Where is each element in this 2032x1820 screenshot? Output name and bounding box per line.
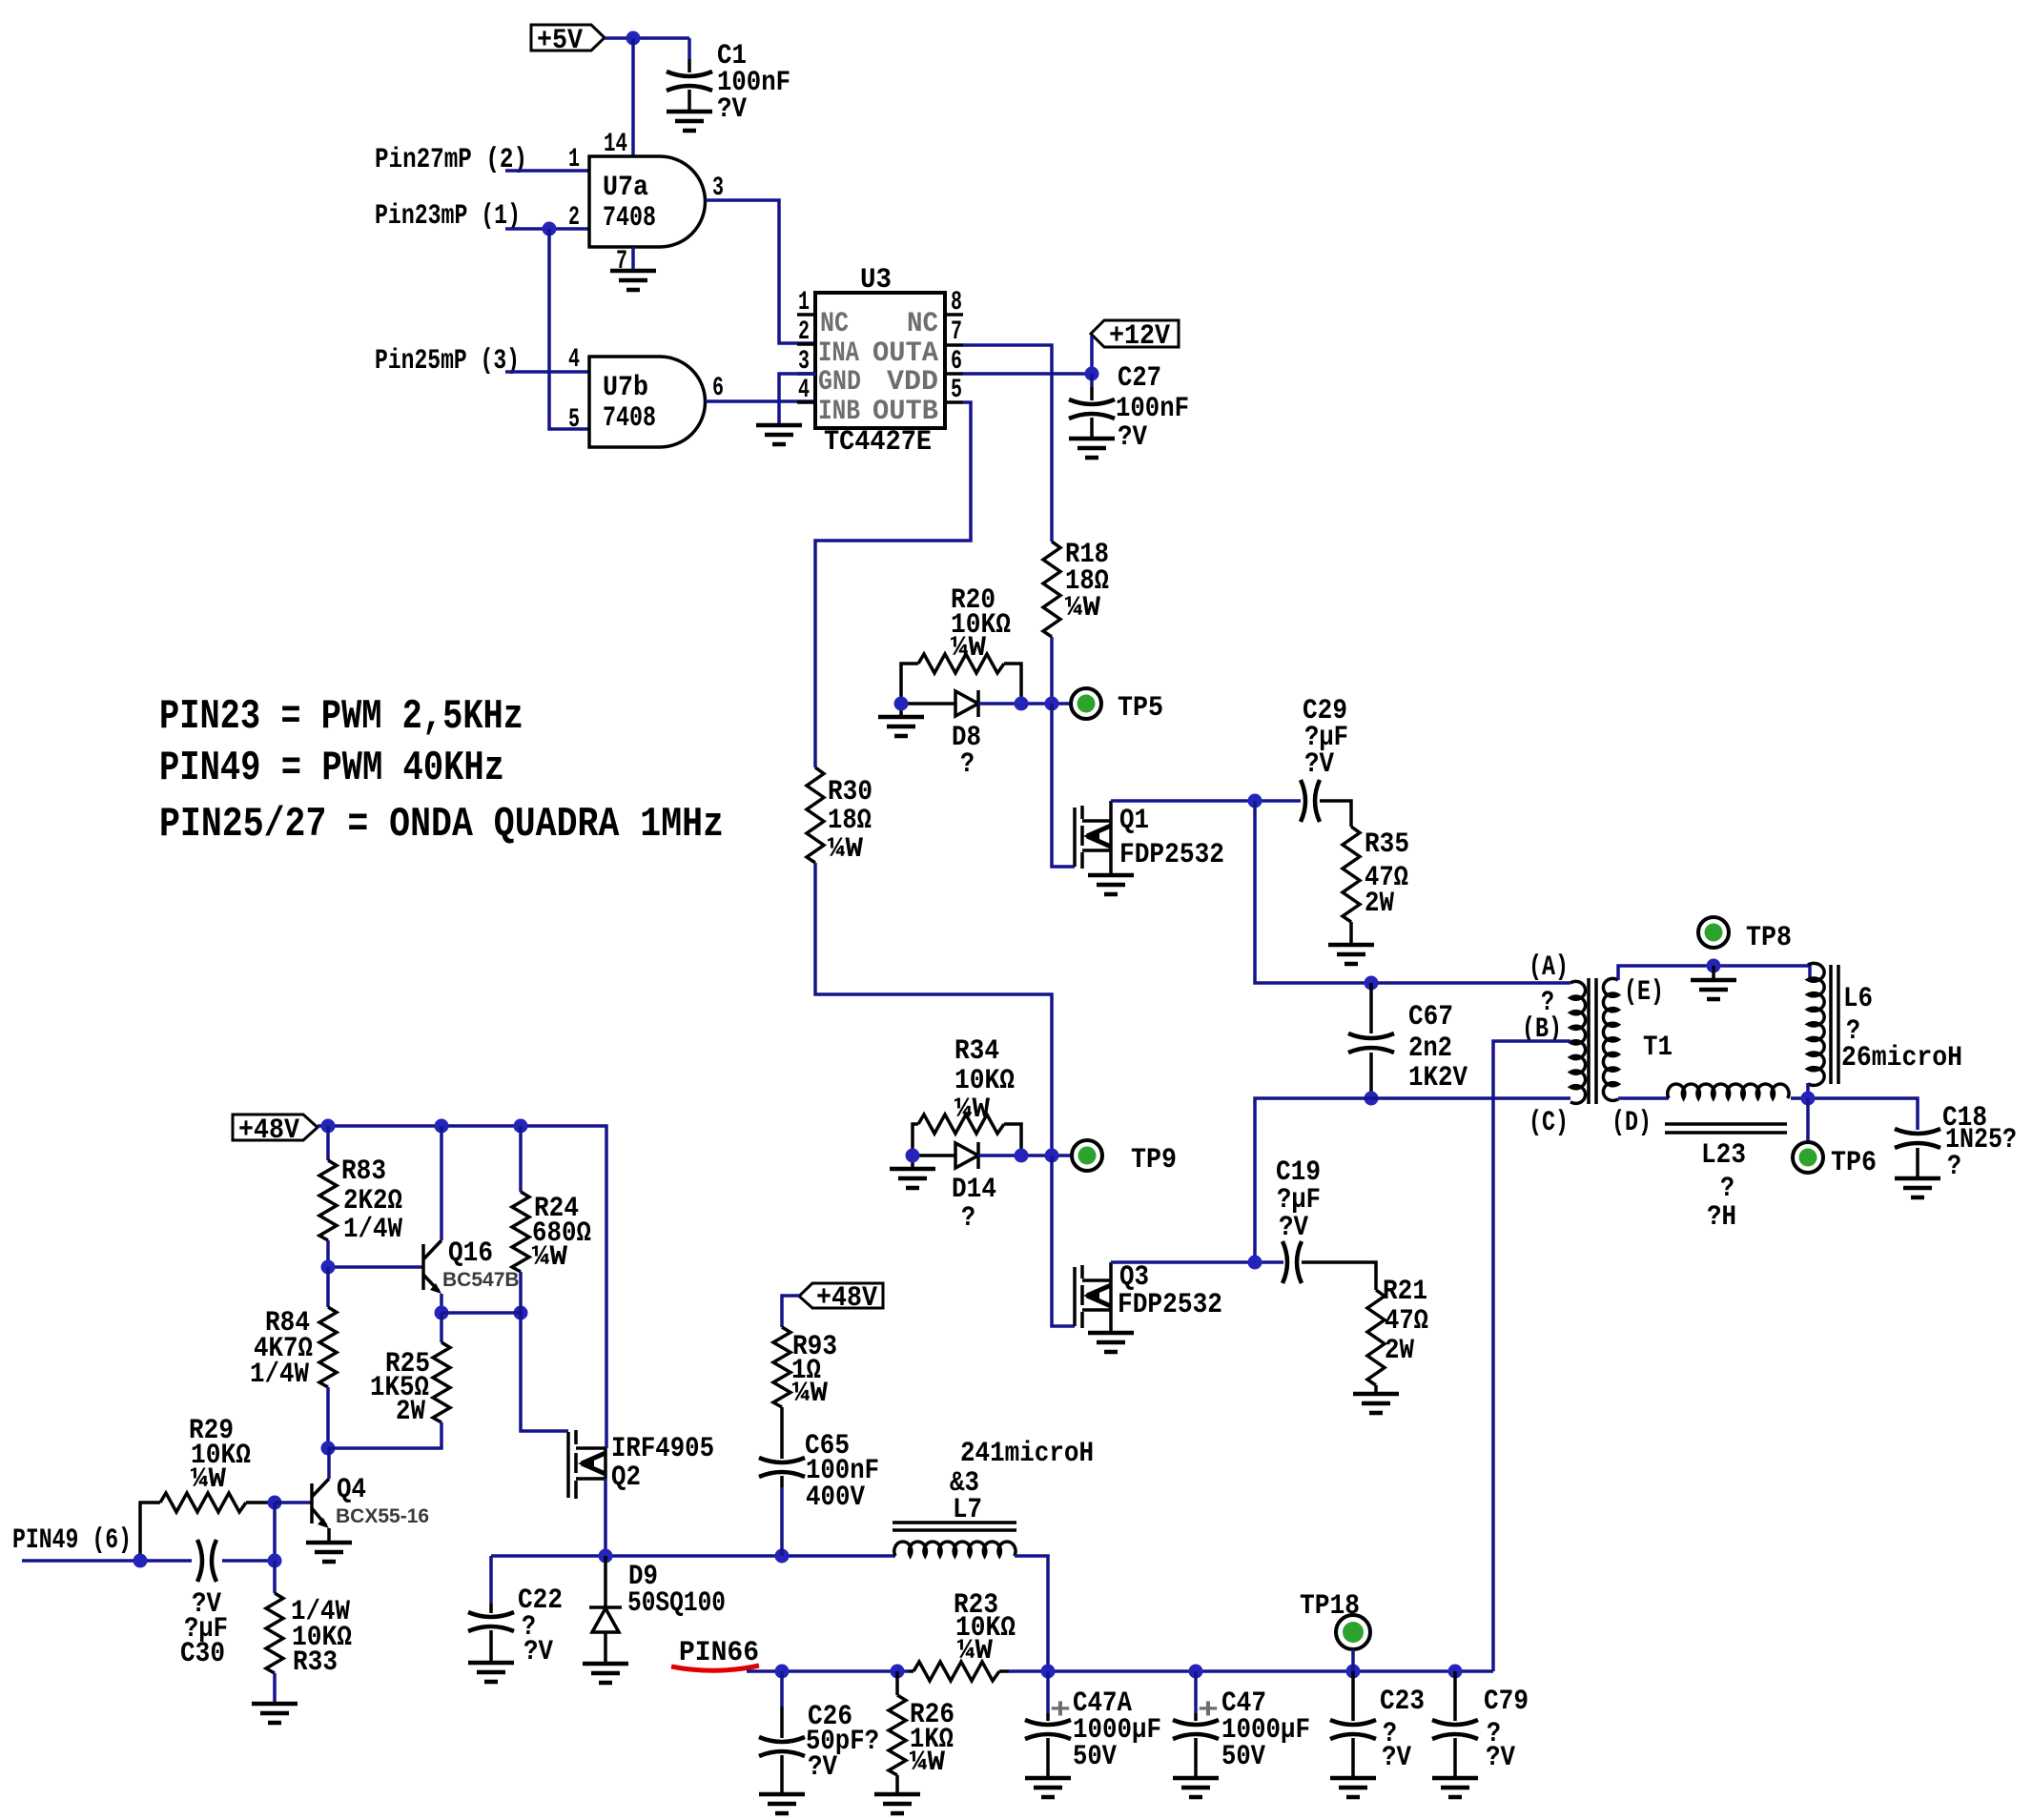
svg-text:50SQ100: 50SQ100 bbox=[627, 1587, 726, 1620]
resistor R29 10K bbox=[140, 1415, 275, 1561]
wire junction to Q2 gate bbox=[521, 1313, 568, 1431]
svg-text:INB: INB bbox=[818, 396, 860, 428]
wire Q2 source down to rail bbox=[604, 1479, 607, 1556]
test point TP18 bbox=[1300, 1590, 1370, 1649]
svg-text:6: 6 bbox=[951, 347, 962, 377]
wire U3 VDD pin6 to +12V bbox=[963, 372, 1092, 376]
ground U3 pin3 bbox=[756, 425, 802, 444]
node junction TP8 bbox=[1707, 959, 1721, 973]
resistor R83 2K2 bbox=[319, 1126, 402, 1246]
svg-text:2: 2 bbox=[568, 203, 580, 233]
svg-text:TP5: TP5 bbox=[1118, 692, 1163, 725]
ground under C26 bbox=[759, 1794, 805, 1813]
svg-text:Q1: Q1 bbox=[1119, 805, 1149, 837]
svg-text:Q16: Q16 bbox=[448, 1237, 493, 1270]
svg-text:R34: R34 bbox=[954, 1035, 999, 1068]
svg-text:U7a: U7a bbox=[603, 172, 648, 204]
power flag +48V right bbox=[799, 1282, 883, 1315]
node junction PIN49/C30 bbox=[133, 1554, 148, 1568]
svg-text:L7: L7 bbox=[953, 1494, 982, 1526]
svg-text:47Ω: 47Ω bbox=[1385, 1305, 1428, 1338]
svg-text:2W: 2W bbox=[1365, 888, 1394, 920]
ground under C79 bbox=[1432, 1778, 1478, 1797]
transformer T1 bbox=[1522, 951, 1673, 1139]
wire transformer (B) tap down to output rail bbox=[1493, 1041, 1570, 1671]
svg-text:26microH: 26microH bbox=[1841, 1042, 1962, 1074]
wire T1 secondary (E) to TP8 and L6 bbox=[1618, 966, 1810, 980]
ground under C18 bbox=[1895, 1178, 1940, 1197]
node junction R24 top bbox=[514, 1119, 528, 1134]
IC U3 TC4427E bbox=[797, 264, 963, 459]
svg-text:10KΩ: 10KΩ bbox=[954, 1065, 1015, 1097]
ground D8 anode bbox=[878, 717, 924, 736]
text note block bbox=[159, 693, 724, 849]
transistor Q1 FDP2532 bbox=[1075, 801, 1224, 875]
wire Q16 collector up bbox=[440, 1126, 443, 1240]
svg-text:1/4W: 1/4W bbox=[343, 1214, 402, 1246]
wire L23 to C18 bbox=[1791, 1098, 1918, 1130]
svg-text:OUTA: OUTA bbox=[872, 337, 938, 370]
svg-text:R33: R33 bbox=[293, 1646, 338, 1679]
svg-text:R35: R35 bbox=[1365, 828, 1409, 861]
wire flag to R93 bbox=[782, 1296, 799, 1327]
svg-text:1: 1 bbox=[568, 145, 580, 174]
power flag +5V bbox=[531, 25, 605, 57]
wire +5V to C1 bbox=[605, 36, 689, 40]
svg-text:IRF4905: IRF4905 bbox=[611, 1433, 714, 1465]
resistor R93 1ohm bbox=[773, 1327, 837, 1410]
svg-text:¼W: ¼W bbox=[532, 1241, 567, 1274]
svg-text:1K2V: 1K2V bbox=[1408, 1062, 1468, 1094]
svg-text:L23: L23 bbox=[1701, 1139, 1746, 1172]
ground under C22 bbox=[468, 1663, 514, 1682]
ground Q4 emitter bbox=[306, 1543, 352, 1562]
node junction Q2/D9 bbox=[599, 1549, 613, 1564]
node junction VDD C27 bbox=[1085, 367, 1099, 381]
power flag +12V bbox=[1091, 320, 1179, 353]
svg-text:?: ? bbox=[960, 748, 975, 781]
capacitor C67 2n2 bbox=[1348, 983, 1468, 1098]
wire +48V rail to Q2 bbox=[318, 1126, 606, 1448]
svg-text:+48V: +48V bbox=[816, 1282, 877, 1315]
ground under R35 bbox=[1328, 945, 1374, 964]
node junction R24 bottom bbox=[514, 1306, 528, 1320]
resistor R21 47ohm 2W bbox=[1367, 1276, 1428, 1385]
ground under C47 bbox=[1173, 1778, 1219, 1797]
ground under C27 bbox=[1069, 439, 1115, 458]
node junction TP5 bbox=[1045, 697, 1059, 711]
ground under C23 bbox=[1330, 1778, 1376, 1797]
svg-text:?V: ?V bbox=[808, 1751, 837, 1784]
svg-text:8: 8 bbox=[951, 288, 962, 317]
node junction Q16 emitter bbox=[435, 1306, 449, 1320]
node junction R83/R84/base bbox=[321, 1260, 336, 1275]
svg-text:TC4427E: TC4427E bbox=[824, 426, 932, 459]
svg-text:¼W: ¼W bbox=[792, 1378, 828, 1410]
svg-text:TP8: TP8 bbox=[1746, 922, 1792, 954]
svg-text:T1: T1 bbox=[1643, 1032, 1673, 1064]
svg-text:PIN49 = PWM 40KHz: PIN49 = PWM 40KHz bbox=[159, 745, 504, 792]
node junction TP6 bbox=[1801, 1092, 1816, 1106]
wire U7b output pin6 to U3 INB bbox=[706, 399, 816, 403]
wire Q16 emitter down bbox=[440, 1294, 443, 1313]
svg-text:2: 2 bbox=[798, 317, 810, 347]
test point TP5 bbox=[1071, 688, 1101, 719]
svg-text:TP9: TP9 bbox=[1131, 1144, 1177, 1176]
inductor L6 bbox=[1808, 963, 1962, 1085]
svg-text:R83: R83 bbox=[341, 1155, 386, 1188]
node junction Q16 collector top bbox=[435, 1119, 449, 1134]
capacitor C29 bbox=[1301, 695, 1348, 822]
svg-text:C67: C67 bbox=[1408, 1001, 1453, 1033]
svg-text:PIN25/27 = ONDA QUADRA 1MHz: PIN25/27 = ONDA QUADRA 1MHz bbox=[159, 801, 724, 849]
svg-text:R21: R21 bbox=[1383, 1276, 1427, 1308]
wire Q1 drain to C29 bbox=[1111, 799, 1301, 803]
svg-text:4: 4 bbox=[568, 345, 580, 375]
svg-text:L6: L6 bbox=[1843, 983, 1873, 1015]
node junction TP9 left bbox=[1015, 1149, 1029, 1163]
svg-text:C79: C79 bbox=[1484, 1686, 1529, 1718]
ground Q3 source bbox=[1088, 1333, 1134, 1352]
capacitor C27 bbox=[1069, 362, 1189, 454]
capacitor C1 bbox=[667, 38, 790, 126]
wire pin 4 bbox=[505, 370, 589, 374]
svg-text:¼W: ¼W bbox=[910, 1747, 945, 1779]
node junction C47 bbox=[1189, 1665, 1203, 1679]
svg-text:+12V: +12V bbox=[1109, 320, 1170, 353]
svg-text:2W: 2W bbox=[396, 1396, 425, 1428]
wire U7a output pin3 to U3 INA bbox=[706, 200, 816, 343]
ground U7a pin7 bbox=[610, 271, 656, 290]
svg-text:PIN49 (6): PIN49 (6) bbox=[12, 1524, 132, 1557]
svg-text:C30: C30 bbox=[180, 1638, 225, 1670]
diode D14 bbox=[913, 1142, 996, 1235]
node junction D14/R34 bbox=[906, 1149, 920, 1163]
ground under C47A bbox=[1025, 1778, 1071, 1797]
node junction R29/Q4 base bbox=[268, 1496, 282, 1510]
svg-text:¼W: ¼W bbox=[957, 1635, 993, 1667]
node junction Q3 drain bbox=[1248, 1256, 1262, 1270]
svg-text:¼W: ¼W bbox=[191, 1463, 226, 1496]
svg-text:¼W: ¼W bbox=[828, 833, 863, 866]
svg-text:+5V: +5V bbox=[537, 25, 583, 57]
node junction C67 bottom bbox=[1365, 1092, 1379, 1106]
svg-text:2K2Ω: 2K2Ω bbox=[343, 1185, 402, 1217]
svg-text:400V: 400V bbox=[806, 1482, 865, 1514]
svg-text:1: 1 bbox=[798, 288, 810, 317]
svg-text:?: ? bbox=[1947, 1151, 1961, 1183]
svg-text:¼W: ¼W bbox=[951, 632, 986, 665]
wire source rail C22 to L7 bbox=[491, 1554, 895, 1558]
wire output rail left bbox=[747, 1669, 909, 1673]
node junction pin2 bbox=[543, 222, 557, 236]
capacitor C30 bbox=[180, 1540, 228, 1670]
node junction R23/L7/C47A bbox=[1041, 1665, 1056, 1679]
wire C30 to R33 junction bbox=[222, 1559, 275, 1563]
wire U3 OUTB pin5 to R30 bbox=[815, 402, 971, 767]
ground under TP8 node bbox=[1712, 966, 1715, 980]
svg-text:Pin27mP (2): Pin27mP (2) bbox=[375, 144, 527, 176]
svg-text:NC: NC bbox=[820, 308, 849, 340]
svg-text:(A): (A) bbox=[1529, 951, 1569, 984]
wire pin 1 bbox=[505, 169, 589, 173]
svg-text:50V: 50V bbox=[1073, 1741, 1117, 1773]
diode D8 bbox=[901, 690, 981, 781]
svg-text:1/4W: 1/4W bbox=[250, 1359, 309, 1391]
resistor R26 1K bbox=[889, 1671, 954, 1794]
capacitor C22 bbox=[468, 1556, 563, 1668]
wire +5V down to U7a pin14 bbox=[631, 38, 635, 156]
wire emitter junction to R24 junction bbox=[441, 1311, 521, 1315]
svg-text:Pin23mP (1): Pin23mP (1) bbox=[375, 200, 521, 233]
svg-text:¼W: ¼W bbox=[1065, 592, 1100, 624]
wire TP9 to Q3 gate bbox=[1052, 1155, 1075, 1326]
wire PIN49 input bbox=[22, 1559, 192, 1563]
wire junction to Q4 base bbox=[275, 1503, 312, 1561]
node junction C26 bbox=[775, 1665, 790, 1679]
svg-text:¼W: ¼W bbox=[954, 1094, 990, 1126]
svg-text:VDD: VDD bbox=[887, 366, 938, 399]
svg-text:U7b: U7b bbox=[603, 372, 648, 404]
svg-text:?: ? bbox=[961, 1202, 975, 1235]
wire R18 to TP5 node bbox=[1050, 637, 1054, 704]
svg-text:(D): (D) bbox=[1611, 1107, 1652, 1139]
svg-text:2W: 2W bbox=[1385, 1335, 1414, 1367]
wire D14 to TP9 bbox=[978, 1154, 1072, 1157]
wire Q4 emitter to ground bbox=[327, 1528, 331, 1543]
svg-text:?V: ?V bbox=[1304, 748, 1334, 781]
and-gate U7b 7408 bbox=[568, 345, 724, 447]
svg-text:50V: 50V bbox=[1221, 1741, 1265, 1773]
node junction D8/R20 bbox=[894, 697, 909, 711]
transistor Q16 BC547B bbox=[423, 1237, 520, 1294]
T1 secondary winding bbox=[1603, 978, 1618, 1100]
svg-text:5: 5 bbox=[951, 376, 962, 405]
svg-text:241microH: 241microH bbox=[960, 1438, 1094, 1470]
wire Q3 drain to C19 bbox=[1111, 1260, 1283, 1264]
wire T1 (D) to L23 bbox=[1618, 1096, 1669, 1100]
wire R84 bottom to junction bbox=[326, 1387, 330, 1448]
wire PIN66 red underline bbox=[671, 1666, 759, 1670]
svg-text:D14: D14 bbox=[952, 1174, 996, 1206]
wire U3 OUTA pin7 to R18 bbox=[963, 345, 1052, 542]
svg-text:Q2: Q2 bbox=[611, 1462, 641, 1494]
node junction R83 top bbox=[321, 1119, 336, 1134]
wire junction down to pin 5 bbox=[549, 229, 589, 429]
ground D14 anode bbox=[890, 1169, 935, 1188]
wire U3 GND pin3 to ground bbox=[779, 374, 816, 425]
capacitor C18 bbox=[1895, 1102, 2017, 1183]
svg-text:6: 6 bbox=[712, 374, 724, 403]
wire TP18 to rail bbox=[1351, 1649, 1355, 1671]
svg-text:(E): (E) bbox=[1624, 976, 1664, 1009]
svg-text:PIN23 = PWM 2,5KHz: PIN23 = PWM 2,5KHz bbox=[159, 693, 523, 741]
resistor R84 4K7 bbox=[250, 1267, 337, 1391]
node junction R26/R23 bbox=[891, 1665, 905, 1679]
ground under R26 bbox=[874, 1794, 920, 1813]
svg-text:7408: 7408 bbox=[603, 402, 656, 435]
svg-text:Pin25mP (3): Pin25mP (3) bbox=[375, 345, 520, 378]
node junction +5V bbox=[626, 31, 641, 46]
ground Q1 source bbox=[1088, 875, 1134, 894]
wire L6 bottom to junction bbox=[1806, 1083, 1810, 1098]
ground under D9 bbox=[583, 1664, 628, 1683]
svg-text:?V: ?V bbox=[523, 1636, 553, 1668]
svg-text:100nF: 100nF bbox=[1116, 393, 1189, 425]
ground under R33 bbox=[252, 1704, 298, 1723]
wire D8 to TP5 bbox=[978, 702, 1070, 706]
resistor R35 47ohm 2W bbox=[1343, 827, 1409, 922]
wire C67 rail to transformer (C) and down to Q3 bbox=[1255, 1098, 1570, 1262]
test point TP6 bbox=[1793, 1142, 1823, 1173]
ground under R21 bbox=[1353, 1394, 1399, 1413]
svg-text:C27: C27 bbox=[1118, 362, 1161, 395]
svg-text:FDP2532: FDP2532 bbox=[1118, 1289, 1222, 1321]
svg-text:7: 7 bbox=[951, 317, 962, 347]
node junction Q1 drain bbox=[1248, 794, 1262, 808]
capacitor C19 bbox=[1276, 1156, 1321, 1283]
svg-text:5: 5 bbox=[568, 405, 580, 435]
svg-text:?: ? bbox=[1720, 1173, 1734, 1205]
svg-text:BC547B: BC547B bbox=[442, 1269, 520, 1291]
power flag +48V left bbox=[233, 1114, 318, 1147]
test point TP8 bbox=[1698, 917, 1729, 948]
svg-text:FDP2532: FDP2532 bbox=[1119, 839, 1224, 871]
svg-text:PIN66: PIN66 bbox=[679, 1637, 759, 1669]
svg-text:U3: U3 bbox=[860, 264, 892, 297]
wire R83 to junction and Q16 base bbox=[328, 1240, 423, 1267]
resistor R30 18ohm bbox=[807, 767, 872, 866]
capacitor C26 50pF bbox=[759, 1671, 879, 1794]
resistor R20 10K bbox=[901, 584, 1021, 704]
wire flag +12V down to VDD rail bbox=[1090, 336, 1094, 374]
wire TP5 to Q1 gate bbox=[1052, 704, 1075, 867]
capacitor C23 bbox=[1330, 1671, 1425, 1778]
svg-text:?V: ?V bbox=[1118, 421, 1147, 454]
transistor Q2 IRF4905 bbox=[568, 1430, 714, 1499]
svg-text:BCX55-16: BCX55-16 bbox=[336, 1505, 429, 1527]
svg-text:NC: NC bbox=[907, 308, 938, 340]
node junction C79 bbox=[1448, 1665, 1463, 1679]
inductor L7 bbox=[893, 1438, 1094, 1556]
capacitor C79 bbox=[1432, 1671, 1529, 1778]
resistor R23 10K horizontal bbox=[909, 1589, 1016, 1681]
svg-text:+: + bbox=[1198, 1695, 1219, 1728]
node junction C67 top bbox=[1365, 976, 1379, 991]
capacitor C47A 1000uF electrolytic bbox=[1025, 1671, 1161, 1778]
test point TP9 bbox=[1072, 1140, 1102, 1171]
transistor Q4 BCX55-16 bbox=[312, 1474, 429, 1528]
inductor L23 bbox=[1665, 1084, 1789, 1234]
svg-text:?V: ?V bbox=[717, 93, 747, 126]
resistor R18 18ohm bbox=[1043, 539, 1109, 637]
wire Q4 collector up to junction bbox=[327, 1448, 331, 1479]
resistor R25 1K5 2W bbox=[328, 1313, 450, 1448]
svg-text:Q4: Q4 bbox=[337, 1474, 366, 1506]
svg-text:?H: ?H bbox=[1707, 1201, 1736, 1234]
wire U7a pin7 to ground bbox=[631, 247, 635, 271]
capacitor C47 1000uF electrolytic bbox=[1173, 1671, 1310, 1778]
svg-text:?V: ?V bbox=[1382, 1742, 1411, 1774]
wire C19 to R21 bbox=[1302, 1262, 1376, 1290]
wire pin 2 bbox=[505, 227, 589, 231]
svg-text:GND: GND bbox=[818, 366, 861, 399]
diode D9 50SQ100 bbox=[589, 1556, 726, 1664]
svg-text:14: 14 bbox=[604, 130, 627, 159]
svg-text:2n2: 2n2 bbox=[1408, 1033, 1452, 1065]
svg-text:7408: 7408 bbox=[603, 202, 656, 235]
capacitor C65 bbox=[759, 1407, 879, 1556]
wire output rail right bbox=[1009, 1669, 1493, 1673]
svg-text:INA: INA bbox=[818, 337, 859, 370]
svg-text:4: 4 bbox=[798, 376, 810, 405]
T1 core bbox=[1589, 978, 1596, 1104]
svg-text:OUTB: OUTB bbox=[872, 396, 938, 428]
svg-text:(C): (C) bbox=[1529, 1107, 1569, 1139]
node junction TP9 bbox=[1045, 1149, 1059, 1163]
svg-text:R30: R30 bbox=[828, 776, 872, 808]
resistor R34 10K bbox=[913, 1035, 1021, 1155]
svg-text:+: + bbox=[1050, 1695, 1071, 1728]
ground under C1 bbox=[667, 112, 712, 131]
and-gate U7a 7408 bbox=[568, 130, 724, 276]
transistor Q3 FDP2532 bbox=[1075, 1261, 1222, 1333]
T1 primary winding bbox=[1570, 981, 1586, 1103]
svg-text:?V: ?V bbox=[1279, 1212, 1308, 1244]
svg-text:?V: ?V bbox=[1486, 1742, 1515, 1774]
resistor R33 10K bbox=[266, 1561, 352, 1704]
node junction TP5 left bbox=[1015, 697, 1029, 711]
wire Q1 drain down to transformer (A) bbox=[1255, 801, 1570, 983]
resistor R24 680ohm bbox=[512, 1126, 591, 1313]
svg-text:TP6: TP6 bbox=[1831, 1147, 1877, 1179]
node junction C30/R33 bbox=[268, 1554, 282, 1568]
wire C29 to R35 bbox=[1320, 801, 1351, 827]
node junction C65 bottom bbox=[775, 1549, 790, 1564]
svg-text:+48V: +48V bbox=[238, 1114, 299, 1147]
wire junction down to TP6 bbox=[1806, 1098, 1810, 1140]
node junction TP18/C23 bbox=[1346, 1665, 1361, 1679]
svg-text:18Ω: 18Ω bbox=[828, 805, 872, 837]
svg-text:C23: C23 bbox=[1380, 1686, 1425, 1718]
wire R30 to TP9 node bbox=[815, 863, 1052, 1155]
wire L7 right down to output rail bbox=[1015, 1556, 1048, 1671]
node junction R84/R25/Q4 bbox=[321, 1442, 336, 1456]
